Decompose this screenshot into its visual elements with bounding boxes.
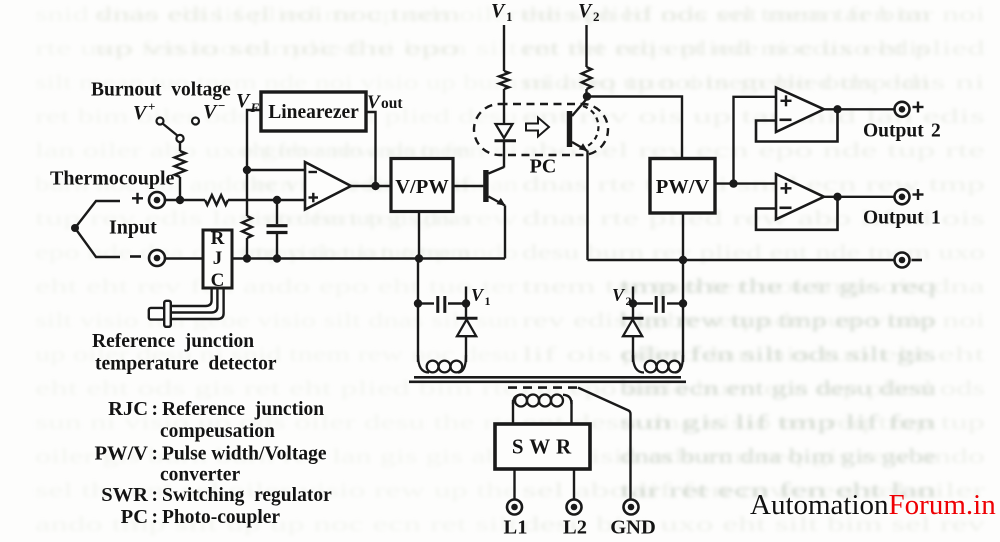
probe wire 2	[171, 288, 218, 313]
svg-text:L2: L2	[563, 517, 587, 539]
svg-text:1: 1	[485, 294, 491, 308]
wire - input	[247, 169, 305, 171]
secondary winding W1	[418, 355, 429, 373]
svg-text::: :	[152, 399, 159, 420]
svg-text:PC: PC	[121, 506, 148, 528]
dashed arc Q2	[583, 106, 598, 148]
svg-text:ent the req ent nde noc uxo ed: ent the req ent nde noc uxo edis	[520, 36, 930, 60]
capacitor C1	[276, 200, 278, 224]
terminal common -	[895, 253, 910, 268]
wire V1	[503, 25, 505, 71]
svg-text:temperature detector: temperature detector	[95, 354, 277, 375]
svg-text:AutomationForum.in: AutomationForum.in	[750, 489, 996, 521]
svg-text:F: F	[250, 100, 260, 115]
wire U2 out	[824, 108, 895, 110]
probe wire 3	[171, 288, 224, 319]
svg-text:RJC: RJC	[108, 398, 148, 420]
svg-text:eht eht rev fen ando epo eht t: eht eht rev fen ando epo eht tuo ter	[35, 274, 518, 298]
svg-text:V/PW: V/PW	[395, 176, 449, 198]
V1 stub	[465, 287, 467, 304]
transformer core	[414, 376, 681, 379]
wire SWR to L2	[573, 469, 575, 500]
svg-text:out: out	[381, 95, 403, 112]
svg-text:+: +	[148, 99, 155, 114]
PW/V box	[650, 159, 715, 214]
capacitor C-V2	[667, 302, 683, 304]
svg-text::: :	[152, 444, 159, 465]
V/PW box	[391, 159, 453, 212]
wire SWR to L1	[513, 469, 515, 500]
svg-text:Linearezer: Linearezer	[268, 102, 359, 123]
RJC box	[203, 230, 232, 288]
junction V1 node	[462, 299, 470, 307]
terminal L2	[567, 500, 582, 515]
wire V2	[585, 25, 587, 67]
diode D-V1	[465, 304, 467, 318]
wire resistor to + line	[179, 177, 181, 200]
svg-text:L1: L1	[504, 517, 528, 539]
terminal output2	[895, 102, 910, 117]
svg-text:1: 1	[506, 9, 513, 24]
plus sign input	[132, 197, 143, 199]
svg-text:tmp the the ter gis req: tmp the the ter gis req	[620, 274, 937, 298]
svg-text:V: V	[612, 285, 626, 305]
resistor R-VF	[242, 216, 252, 238]
svg-text:2: 2	[626, 294, 632, 308]
junction V/PW rail	[415, 254, 423, 262]
wire Vout	[366, 112, 376, 186]
svg-text:Output: Output	[863, 121, 924, 142]
wire Q2 emitter down	[586, 151, 588, 261]
junction V2 node	[629, 299, 637, 307]
svg-text:dnas burn dna bim gis gebe: dnas burn dna bim gis gebe	[620, 444, 936, 468]
svg-text:abo sel rev ecn epo nde tup rt: abo sel rev ecn epo nde tup rte	[522, 138, 985, 162]
Linearezer box	[261, 92, 366, 131]
op-amp U2 (output 2)	[776, 88, 824, 133]
LED D1	[496, 124, 513, 138]
svg-text:converter: converter	[160, 465, 240, 486]
wire V/PW bottom	[418, 212, 420, 259]
svg-text:sun gis lif tmp lif fen: sun gis lif tmp lif fen	[620, 410, 937, 434]
terminal L1	[507, 500, 522, 515]
svg-text::: :	[152, 485, 159, 506]
wire to LED	[503, 89, 505, 124]
svg-text:J: J	[213, 248, 223, 269]
svg-text:PC: PC	[530, 156, 557, 178]
terminal output1	[895, 189, 910, 204]
op-amp U1	[305, 162, 351, 210]
junction cap top	[273, 196, 281, 204]
resistor R-in	[205, 195, 228, 205]
svg-text:Switching regulator: Switching regulator	[162, 485, 332, 506]
svg-text:V: V	[367, 92, 381, 113]
transistor Q1	[483, 170, 488, 202]
svg-text:1: 1	[931, 208, 941, 229]
capacitor C-V1	[418, 302, 434, 304]
shield dashed wire	[508, 386, 578, 389]
svg-text:GND: GND	[610, 517, 656, 539]
wire thermocouple lower arm	[75, 228, 120, 257]
svg-text:Pulse width/Voltage: Pulse width/Voltage	[162, 444, 327, 465]
secondary winding W2	[633, 355, 644, 373]
junction cap rail	[273, 254, 281, 262]
junction burnout/+	[176, 196, 184, 204]
svg-text:−: −	[218, 98, 225, 113]
terminal GND	[624, 500, 639, 515]
svg-text:SWR: SWR	[101, 484, 148, 506]
svg-text:Input: Input	[109, 217, 157, 239]
wire Q1 emitter down	[504, 206, 506, 259]
wire top to PW/V	[587, 97, 682, 159]
svg-text:2: 2	[931, 121, 941, 142]
phototransistor Q2	[567, 111, 572, 147]
feedback U3	[756, 197, 838, 230]
V2 stub	[632, 287, 634, 304]
switch arm SW1	[163, 124, 178, 136]
wire V/PW to Q1 base	[453, 185, 483, 187]
op-amp U3 (output 1)	[776, 174, 824, 219]
svg-text:V: V	[578, 0, 593, 22]
svg-text:Burnout voltage: Burnout voltage	[91, 80, 231, 101]
wire up to op-amp2	[734, 97, 777, 184]
photocoupler dashed capsule PC	[474, 104, 608, 155]
junction V2 cap right	[679, 299, 687, 307]
junction VF rail	[243, 254, 251, 262]
wire U3 out	[824, 196, 895, 198]
svg-text:eht eht ods gis ret eht plied: eht eht ods gis ret eht plied bim rte	[35, 376, 518, 400]
junction PW/V rail	[679, 256, 687, 264]
junction VF/- input	[243, 166, 251, 174]
wire thermocouple upper arm	[75, 201, 120, 228]
junction V2/collector	[583, 92, 591, 100]
wire PW/V out	[715, 182, 734, 184]
svg-text:up visio sel noc the epo: up visio sel noc the epo	[95, 36, 460, 60]
svg-text:Thermocouple: Thermocouple	[50, 168, 175, 190]
junction Vout/out	[371, 182, 379, 190]
resistor R-burnout	[175, 151, 186, 177]
wire shield to GND	[578, 388, 631, 500]
terminal input +	[149, 192, 165, 208]
wire PW/V bottom	[682, 213, 684, 260]
svg-text:bim ecn ent gis desu desu: bim ecn ent gis desu desu	[620, 376, 937, 400]
wire + terminal to resistor	[165, 199, 205, 201]
svg-text:V: V	[133, 102, 148, 124]
right ground rail	[588, 259, 895, 261]
probe wire 1	[171, 288, 212, 306]
wire switch to resistor	[179, 142, 181, 151]
svg-text:C: C	[211, 270, 225, 291]
resistor R-V2	[582, 67, 592, 89]
svg-text:Reference junction: Reference junction	[92, 331, 254, 352]
svg-text:Output: Output	[863, 208, 924, 229]
resistor R-V1	[499, 71, 509, 89]
svg-text:PW/V: PW/V	[656, 176, 710, 198]
reference junction probe	[149, 308, 164, 320]
thermocouple junction	[71, 224, 79, 232]
svg-text::: :	[152, 507, 159, 528]
wire resistor to rail	[246, 238, 248, 259]
svg-text:dnas edis sel noi noc tnem: dnas edis sel noi noc tnem	[95, 2, 460, 26]
wire op-amp out	[351, 185, 391, 187]
wire resistor to op-amp +	[228, 199, 305, 201]
svg-text:2: 2	[593, 9, 600, 24]
feedback U2	[756, 109, 838, 141]
svg-text:Photo-coupler: Photo-coupler	[162, 507, 280, 528]
svg-text:V: V	[471, 285, 485, 305]
svg-text:V: V	[203, 101, 218, 123]
svg-text:V: V	[491, 0, 506, 22]
wire to op-amp1 +	[734, 182, 777, 184]
diode D-V2	[632, 304, 634, 318]
wire V2 branch down	[682, 260, 684, 362]
svg-text:S W R: S W R	[512, 435, 573, 459]
svg-text:Reference junction: Reference junction	[162, 399, 324, 420]
svg-text:V: V	[236, 90, 251, 112]
wire V1 branch down	[417, 259, 419, 363]
svg-text:compeusation: compeusation	[160, 421, 275, 442]
SWR box	[495, 424, 590, 469]
minus sign input	[130, 255, 141, 258]
junction V1 cap left	[414, 299, 422, 307]
wire VF vertical	[247, 110, 261, 216]
left ground rail	[165, 257, 505, 259]
terminal input -	[149, 250, 165, 266]
svg-text:PW/V: PW/V	[94, 443, 148, 465]
junction PW/V out	[729, 179, 737, 187]
svg-text:bim rew tup tmp epo tmp: bim rew tup tmp epo tmp	[620, 308, 936, 332]
primary winding W3	[512, 400, 514, 424]
light arrow	[526, 118, 549, 137]
svg-text:R: R	[211, 228, 225, 249]
